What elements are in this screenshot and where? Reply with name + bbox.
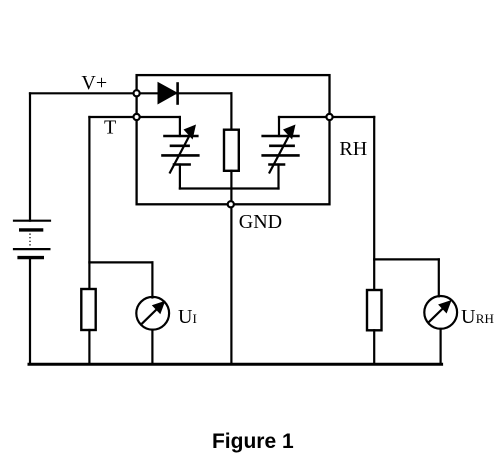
wire V+ horizontal from battery to module bbox=[30, 92, 137, 94]
wire T vertical down to resistor bbox=[88, 117, 90, 289]
wire below voltmeter UI bbox=[151, 330, 153, 365]
label UI bbox=[178, 306, 197, 328]
wire T horizontal bbox=[89, 116, 136, 118]
wire RH horizontal to right vertical bbox=[330, 116, 375, 118]
svg-text:Figure 1: Figure 1 bbox=[212, 430, 294, 453]
node RH bbox=[326, 114, 332, 120]
svg-text:RH: RH bbox=[339, 138, 367, 160]
wire GND vertical to rail bbox=[230, 204, 232, 364]
wire voltmeter URH top feed bbox=[438, 259, 440, 296]
wire sensor bottoms connector bbox=[180, 187, 279, 189]
wire left branch to voltmeter bbox=[89, 261, 152, 263]
label URH bbox=[461, 306, 494, 328]
node GND bbox=[228, 201, 234, 207]
svg-text:V+: V+ bbox=[81, 72, 107, 94]
wire right vertical down to resistor R3 bbox=[373, 117, 375, 290]
svg-text:U: U bbox=[461, 306, 476, 328]
svg-text:T: T bbox=[104, 117, 116, 139]
module outline box bbox=[137, 75, 330, 204]
wire diode to resistor R1 bbox=[230, 93, 232, 129]
resistor R3 (right) bbox=[367, 290, 382, 330]
node V+ bbox=[134, 90, 140, 96]
wire voltmeter UI top feed bbox=[151, 262, 153, 297]
svg-text:RH: RH bbox=[476, 311, 494, 326]
node T bbox=[134, 114, 140, 120]
resistor R1 (middle) bbox=[224, 130, 239, 171]
svg-text:GND: GND bbox=[239, 211, 282, 233]
wire below resistor R2 bbox=[88, 330, 90, 364]
wire left vertical battery top bbox=[29, 93, 31, 220]
diode D1 bbox=[137, 83, 232, 104]
resistor R2 (left) bbox=[81, 289, 95, 330]
wire below resistor R3 bbox=[373, 330, 375, 364]
humidity sensor C2 (right) bbox=[263, 117, 330, 189]
voltmeter UI bbox=[136, 297, 169, 330]
voltmeter URH bbox=[424, 296, 457, 329]
wire resistor R1 to GND node bbox=[230, 171, 232, 205]
wire left vertical battery bottom to rail bbox=[29, 258, 31, 365]
battery B1 bbox=[14, 221, 50, 258]
wire below voltmeter URH bbox=[440, 329, 442, 365]
humidity sensor C1 (left) bbox=[137, 117, 199, 189]
wire bottom rail bbox=[29, 363, 442, 366]
wire right branch to voltmeter URH bbox=[374, 258, 439, 260]
svg-text:I: I bbox=[193, 311, 197, 326]
svg-text:U: U bbox=[178, 306, 193, 328]
